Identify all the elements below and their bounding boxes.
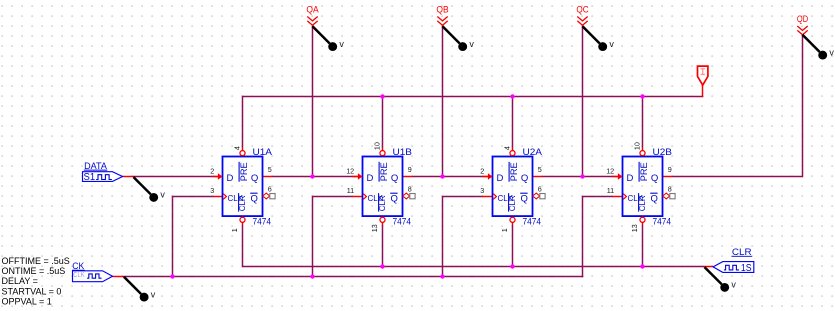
U1B D input arrow xyxy=(353,173,363,180)
wire PRE bus horizontal xyxy=(243,96,704,98)
wire red stub U1A pin3 xyxy=(214,196,222,198)
junction PRE U2B xyxy=(640,94,644,98)
svg-text:5: 5 xyxy=(268,165,272,174)
wire PRE drop to U1A pin xyxy=(242,96,244,148)
U2B pin 9 number xyxy=(668,165,672,174)
U1B pin 13 number rotated xyxy=(370,224,379,232)
CLR S1 text mirrored xyxy=(741,263,752,274)
wire red pin stub CLR U2B xyxy=(642,222,644,225)
U1A Qbar pin diamond xyxy=(263,193,270,199)
voltage probe CK net needle xyxy=(124,277,141,294)
voltage probe QA needle xyxy=(313,26,330,43)
U1A reference label xyxy=(253,147,273,158)
U1B pin 10 number rotated xyxy=(373,142,382,150)
junction CK U2A xyxy=(440,274,444,278)
svg-text:Q: Q xyxy=(651,194,658,205)
svg-text:ONTIME = .5uS: ONTIME = .5uS xyxy=(2,266,66,276)
U2B clock triangle xyxy=(623,194,626,200)
svg-text:8: 8 xyxy=(408,184,412,193)
wire red pin stub CLR U1B xyxy=(382,222,384,225)
U2A CLR label rotated xyxy=(508,193,517,212)
CK waveform glyph xyxy=(87,274,102,278)
U2A D input label xyxy=(497,173,504,184)
svg-text:v: v xyxy=(160,190,165,200)
wire DATA to U1A pin2 xyxy=(133,176,214,178)
svg-text:CLR: CLR xyxy=(378,195,387,211)
junction QB tap xyxy=(440,174,444,178)
svg-text:CLR: CLR xyxy=(638,195,647,211)
voltage probe QC tip xyxy=(598,42,607,51)
U2A Qbar output label xyxy=(520,193,528,204)
svg-text:4: 4 xyxy=(503,146,512,150)
U1A pin 6 number xyxy=(268,184,272,193)
svg-text:7474: 7474 xyxy=(253,216,272,227)
voltage probe DATA net v label xyxy=(160,190,165,200)
U2B D input arrow xyxy=(613,173,623,180)
U1B reference label xyxy=(393,147,413,158)
net label QB chevron xyxy=(437,17,447,26)
wire QB vertical xyxy=(442,26,444,177)
svg-text:4: 4 xyxy=(233,146,242,150)
U1A Q output label xyxy=(251,173,258,184)
node DATA label xyxy=(84,161,108,171)
svg-text:DATA: DATA xyxy=(84,161,107,171)
U2B pin 8 number xyxy=(668,184,672,193)
svg-text:Q: Q xyxy=(391,194,398,205)
net label QA xyxy=(306,5,318,15)
voltage probe CK net tip xyxy=(140,293,149,302)
voltage probe QC needle xyxy=(583,26,600,43)
U2A Qbar pin diamond xyxy=(533,193,540,199)
svg-text:QB: QB xyxy=(436,5,448,15)
svg-text:v: v xyxy=(339,39,344,49)
wire red pin stub CLR U1A xyxy=(242,222,244,225)
svg-text:v: v xyxy=(829,47,834,57)
voltage probe CLR net tip xyxy=(720,283,729,292)
svg-text:10: 10 xyxy=(633,142,642,150)
U1A Qbar unconnected square xyxy=(270,194,275,199)
wire QC vertical xyxy=(582,26,584,177)
U1B D input label xyxy=(367,173,374,184)
net label QD xyxy=(797,14,809,24)
net label QD chevron xyxy=(797,26,807,35)
svg-text:12: 12 xyxy=(606,167,614,176)
svg-text:OFFTIME = .5uS: OFFTIME = .5uS xyxy=(2,256,70,266)
U1A pin 5 number xyxy=(268,165,272,174)
U2A pin 2 number xyxy=(480,167,484,176)
svg-text:8: 8 xyxy=(668,184,672,193)
svg-text:U1A: U1A xyxy=(253,147,273,158)
svg-text:D: D xyxy=(367,173,374,184)
U2B PRE label rotated xyxy=(639,162,650,182)
junction CK U1B xyxy=(310,274,314,278)
U1A PRE label rotated xyxy=(239,162,250,182)
svg-text:QD: QD xyxy=(797,14,809,24)
U1B Q output label xyxy=(391,173,398,184)
U1B Qbar pin diamond xyxy=(403,193,410,199)
U2B CLR label rotated xyxy=(638,193,647,212)
U2A pin 6 number xyxy=(538,184,542,193)
U1B Qbar unconnected square xyxy=(410,194,415,199)
S1 DATA text xyxy=(84,172,96,183)
U2B Qbar output label xyxy=(650,193,658,204)
svg-text:CLR: CLR xyxy=(238,195,247,211)
wire red stub U2B pin9 xyxy=(663,176,673,178)
node CK label xyxy=(72,261,85,271)
junction QC tap xyxy=(580,174,584,178)
wire red stub U1B pin12 xyxy=(353,176,360,178)
U1A pin 1 number rotated xyxy=(230,228,239,232)
junction PRE U2A xyxy=(510,94,514,98)
wire red stub U2A pin2 xyxy=(483,176,490,178)
U1A D input label xyxy=(227,173,234,184)
svg-text:DELAY =: DELAY = xyxy=(2,276,38,286)
U1A CLR pin circle xyxy=(240,217,245,222)
wire PRE drop to U1B pin xyxy=(382,96,384,148)
U2B CLR pin circle xyxy=(640,217,645,222)
U2A D input arrow xyxy=(483,173,493,180)
svg-text:11: 11 xyxy=(607,186,614,195)
voltage probe QB tip xyxy=(458,42,467,51)
svg-text:D: D xyxy=(627,173,634,184)
U1A CLR label rotated xyxy=(238,193,247,212)
wire CLR bus horizontal xyxy=(243,266,705,268)
U1B CLR pin circle xyxy=(380,217,385,222)
wire U1B clock vertical xyxy=(312,196,314,277)
U2A pin 5 number xyxy=(538,165,542,174)
flip-flop U2B body xyxy=(623,157,663,217)
wire U2B Q horizontal to QD xyxy=(672,176,803,178)
wire red pin stub PRE U2A xyxy=(512,148,514,151)
wire red stub U2A pin5 xyxy=(533,176,543,178)
junction PRE U1B xyxy=(380,94,384,98)
wire U1A Q to U1B D xyxy=(272,176,353,178)
wire U2B pin11 horizontal xyxy=(583,196,614,198)
U1B PRE pin circle xyxy=(380,151,385,156)
U2A pin 1 number rotated xyxy=(500,228,509,232)
U1B PRE label rotated xyxy=(379,162,390,182)
wire CLR drop from U2A pin xyxy=(512,225,514,267)
U1B pin 9 number xyxy=(408,165,412,174)
svg-text:1S: 1S xyxy=(741,263,752,274)
svg-text:1: 1 xyxy=(500,228,509,232)
U2A part value 7474 xyxy=(523,216,542,227)
svg-text:13: 13 xyxy=(630,224,639,232)
wire red stub U1A pin5 xyxy=(263,176,273,178)
wire red stub U2B pin11 xyxy=(613,196,622,198)
U2B PRE pin circle xyxy=(640,151,645,156)
wire red pin stub CLR U2A xyxy=(512,222,514,225)
U2B reference label xyxy=(653,147,673,158)
wire red segment to current marker xyxy=(702,85,704,97)
U1A PRE pin circle xyxy=(240,151,245,156)
digital stimulus S1 CLR tag (mirrored) xyxy=(713,262,754,273)
U1A part value 7474 xyxy=(253,216,272,227)
voltage probe QA tip xyxy=(328,42,337,51)
U2B D input label xyxy=(627,173,634,184)
voltage probe CK net v label xyxy=(151,289,156,299)
svg-text:PRE: PRE xyxy=(509,162,520,181)
wire red stub U1B pin11 xyxy=(353,196,362,198)
svg-text:U1B: U1B xyxy=(393,147,413,158)
CK parameters text xyxy=(2,256,70,307)
svg-text:Q: Q xyxy=(521,173,528,184)
wire CLR drop from U2B pin xyxy=(642,225,644,267)
U1B Qbar output label xyxy=(390,193,398,204)
svg-text:v: v xyxy=(609,39,614,49)
wire PRE drop to U2B pin xyxy=(642,96,644,148)
svg-text:QA: QA xyxy=(306,5,318,15)
svg-text:9: 9 xyxy=(408,165,412,174)
svg-text:13: 13 xyxy=(370,224,379,232)
svg-text:OPPVAL = 1: OPPVAL = 1 xyxy=(2,297,52,307)
svg-text:6: 6 xyxy=(268,184,272,193)
U2A Q output label xyxy=(521,173,528,184)
U2A CLR pin circle xyxy=(510,217,515,222)
voltage probe CLR net v label xyxy=(731,280,736,290)
svg-text:9: 9 xyxy=(668,165,672,174)
wire QD vertical xyxy=(802,35,804,178)
node CLR label xyxy=(732,247,753,258)
flip-flop U1A body xyxy=(223,157,263,217)
svg-text:2: 2 xyxy=(210,167,214,176)
wire U1B Q to U2A D xyxy=(412,176,483,178)
U1B pin 11 number xyxy=(347,186,354,195)
U2B pin 10 number rotated xyxy=(633,142,642,150)
U2B pin 13 number rotated xyxy=(630,224,639,232)
U2B CLK label xyxy=(628,194,644,203)
net label QC chevron xyxy=(577,17,587,26)
svg-text:v: v xyxy=(731,280,736,290)
svg-text:11: 11 xyxy=(347,186,354,195)
svg-text:Q: Q xyxy=(651,173,658,184)
wire red stub U1A pin2 xyxy=(213,176,220,178)
svg-text:6: 6 xyxy=(538,184,542,193)
svg-text:7474: 7474 xyxy=(523,216,542,227)
U2B Q output label xyxy=(651,173,658,184)
svg-text:5: 5 xyxy=(538,165,542,174)
svg-text:D: D xyxy=(497,173,504,184)
svg-text:D: D xyxy=(227,173,234,184)
voltage probe DATA net tip xyxy=(149,193,158,202)
wire red stub CK source xyxy=(112,276,123,278)
U2B pin 11 number xyxy=(607,186,614,195)
voltage probe QC v label xyxy=(609,39,614,49)
junction CK U1A xyxy=(170,274,174,278)
svg-text:12: 12 xyxy=(346,167,354,176)
wire red stub CLR source xyxy=(704,266,714,268)
U2B Qbar unconnected square xyxy=(670,194,675,199)
svg-text:3: 3 xyxy=(480,186,484,195)
svg-text:Q: Q xyxy=(251,194,258,205)
U2A pin 3 number xyxy=(480,186,484,195)
wire red stub U2A pin3 xyxy=(483,196,492,198)
wire U2A pin3 horizontal xyxy=(443,196,484,198)
S1 DATA waveform glyph xyxy=(96,175,112,180)
svg-text:PRE: PRE xyxy=(639,162,650,181)
svg-text:QC: QC xyxy=(576,5,589,15)
wire CLR drop from U1A pin xyxy=(242,225,244,267)
wire QA vertical xyxy=(312,26,314,177)
U1B pin 12 number xyxy=(346,167,354,176)
svg-text:S1: S1 xyxy=(84,172,96,183)
U1B part value 7474 xyxy=(393,216,412,227)
flip-flop U2A body xyxy=(493,157,533,217)
voltage probe QD v label xyxy=(829,47,834,57)
wire U2A clock vertical xyxy=(442,196,444,277)
voltage probe QD needle xyxy=(803,35,820,52)
U1A D input arrow xyxy=(213,173,223,180)
svg-text:PRE: PRE xyxy=(379,162,390,181)
net label QB xyxy=(436,5,448,15)
U1A Qbar output label xyxy=(250,193,258,204)
svg-text:10: 10 xyxy=(373,142,382,150)
junction CLR U1B xyxy=(380,264,384,268)
CK tag CLK text xyxy=(73,270,85,279)
svg-text:2: 2 xyxy=(480,167,484,176)
U1B CLK label xyxy=(368,194,384,203)
svg-text:v: v xyxy=(469,39,474,49)
U1A pin 2 number xyxy=(210,167,214,176)
svg-text:STARTVAL = 0: STARTVAL = 0 xyxy=(2,286,62,296)
U1A pin 4 number rotated xyxy=(233,146,242,150)
svg-text:CLK: CLK xyxy=(73,270,85,279)
voltage probe QD tip xyxy=(818,51,827,60)
voltage probe QB v label xyxy=(469,39,474,49)
U1B CLR label rotated xyxy=(378,193,387,212)
U1B pin 8 number xyxy=(408,184,412,193)
junction CLR U2B xyxy=(640,264,644,268)
U2A PRE label rotated xyxy=(509,162,520,182)
U2A CLK label xyxy=(498,194,514,203)
wire U2A Q to U2B D xyxy=(542,176,613,178)
svg-text:Q: Q xyxy=(391,173,398,184)
wire red stub U2B pin12 xyxy=(613,176,620,178)
U2A reference label xyxy=(523,147,543,158)
U2A pin 4 number rotated xyxy=(503,146,512,150)
wire PRE drop to U2A pin xyxy=(512,96,514,148)
svg-text:CLR: CLR xyxy=(508,195,517,211)
voltage probe QA v label xyxy=(339,39,344,49)
wire U2B clock vertical xyxy=(582,196,584,278)
svg-text:Q: Q xyxy=(251,173,258,184)
svg-text:3: 3 xyxy=(210,186,214,195)
voltage probe DATA net needle xyxy=(134,177,151,194)
svg-text:7474: 7474 xyxy=(653,216,672,227)
U1A CLK label xyxy=(228,194,244,203)
U2B pin 12 number xyxy=(606,167,614,176)
wire U1A clock vertical xyxy=(172,196,174,277)
wire U1B pin11 horizontal xyxy=(313,196,354,198)
U2A clock triangle xyxy=(493,194,496,200)
digital clock CK tag xyxy=(73,271,113,282)
U1B clock triangle xyxy=(363,194,366,200)
net label QC xyxy=(576,5,589,15)
junction QA tap xyxy=(310,174,314,178)
U1A clock triangle xyxy=(223,194,226,200)
voltage probe QB needle xyxy=(443,26,460,43)
svg-text:1: 1 xyxy=(230,228,239,232)
wire red pin stub PRE U2B xyxy=(642,148,644,151)
CLR waveform glyph xyxy=(724,265,739,270)
svg-text:U2B: U2B xyxy=(653,147,673,158)
svg-text:PRE: PRE xyxy=(239,162,250,181)
wire U1A pin3 horizontal xyxy=(173,196,215,198)
U2B part value 7474 xyxy=(653,216,672,227)
svg-text:Q: Q xyxy=(521,194,528,205)
U2A PRE pin circle xyxy=(510,151,515,156)
svg-text:U2A: U2A xyxy=(523,147,543,158)
wire CK bus horizontal xyxy=(123,276,584,278)
current marker xyxy=(698,66,708,85)
flip-flop U1B body xyxy=(363,157,403,217)
wire red stub DATA source xyxy=(122,176,133,178)
U2A Qbar unconnected square xyxy=(540,194,545,199)
wire CLR drop from U1B pin xyxy=(382,225,384,267)
svg-text:v: v xyxy=(151,289,156,299)
digital stimulus S1 DATA tag xyxy=(83,172,123,182)
wire red stub U1B pin9 xyxy=(403,176,413,178)
U1A pin 3 number xyxy=(210,186,214,195)
wire red pin stub PRE U1B xyxy=(382,148,384,151)
U2B Qbar pin diamond xyxy=(663,193,670,199)
junction CLR U2A xyxy=(510,264,514,268)
net label QA chevron xyxy=(307,17,317,26)
voltage probe CLR net needle xyxy=(705,267,722,284)
wire red pin stub PRE U1A xyxy=(242,148,244,151)
svg-text:7474: 7474 xyxy=(393,216,412,227)
